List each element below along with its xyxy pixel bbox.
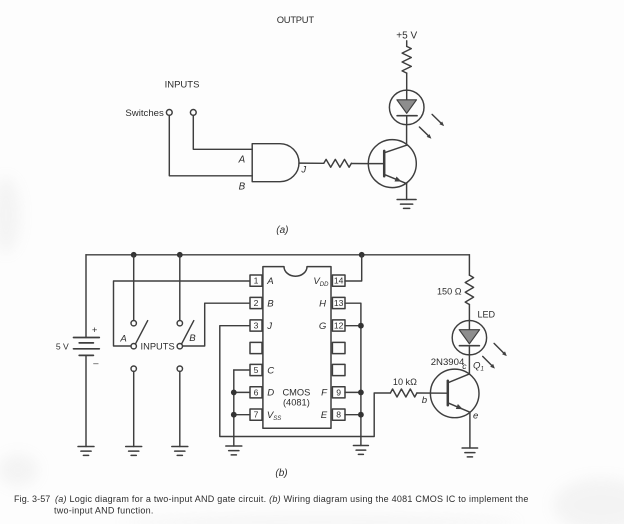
- wire pin 3 J to 10k resistor: [220, 326, 391, 437]
- svg-text:5: 5: [254, 365, 259, 375]
- ground switch B: [172, 447, 188, 456]
- junction dot rail-switch B: [177, 252, 183, 258]
- resistor 10 kOhm: [390, 389, 417, 397]
- wire pin 13 to unused-input ground bus: [345, 303, 361, 445]
- svg-text:14: 14: [334, 276, 344, 286]
- svg-text:2: 2: [254, 298, 259, 308]
- wire rail to 150 ohm resistor: [468, 255, 470, 275]
- ground battery: [78, 447, 94, 456]
- switch B: [177, 321, 194, 349]
- wire emitter to ground (a): [406, 184, 408, 200]
- svg-text:OUTPUT: OUTPUT: [277, 14, 315, 25]
- battery 5 V: [74, 338, 100, 356]
- junction dot pin 8: [358, 412, 364, 418]
- wire +5V stub (a): [406, 41, 408, 47]
- svg-text:LED: LED: [477, 310, 495, 320]
- junction dot rail-switch A: [131, 252, 137, 258]
- LED light arrows (b): [483, 343, 507, 368]
- svg-text:C: C: [267, 365, 274, 376]
- wire rail to switch B top: [179, 255, 181, 321]
- ground (a): [397, 200, 416, 209]
- svg-text:Fig. 3-57: Fig. 3-57: [14, 494, 50, 504]
- caption figure 3-57: [14, 494, 529, 516]
- junction dot pin 9: [358, 390, 364, 396]
- wire pin 9 stub: [345, 391, 361, 393]
- junction dot pin 7: [231, 412, 237, 418]
- pin 1 box left row 1: [250, 275, 262, 286]
- svg-text:A: A: [119, 334, 126, 345]
- svg-text:e: e: [473, 410, 478, 421]
- svg-text:INPUTS: INPUTS: [141, 341, 175, 351]
- svg-text:D: D: [267, 388, 274, 399]
- AND gate U1: [252, 144, 299, 182]
- svg-text:B: B: [239, 182, 246, 193]
- wire +5V rail (b): [86, 254, 469, 256]
- wire pin 1 to switch A pole: [114, 281, 250, 346]
- ground Vss bus: [226, 446, 242, 455]
- resistor base (a): [324, 159, 352, 167]
- wire Vss bus to ground: [233, 370, 235, 446]
- wire resistor to base (a): [351, 163, 368, 165]
- svg-text:A: A: [238, 155, 246, 166]
- junction dot rail-pin14: [359, 252, 365, 258]
- svg-text:–: –: [93, 357, 99, 368]
- ground switch A: [126, 447, 142, 456]
- pin 14 box right row 1: [332, 275, 345, 286]
- switch A: [131, 321, 148, 349]
- wire pin 14 to rail: [345, 255, 362, 281]
- svg-text:1: 1: [254, 276, 259, 286]
- svg-text:two-input AND function.: two-input AND function.: [54, 506, 154, 516]
- svg-text:CMOS: CMOS: [282, 388, 310, 398]
- pin blank box right row 5: [332, 364, 345, 375]
- wire pin 12 stub: [345, 325, 361, 327]
- wire battery - to ground: [85, 355, 87, 446]
- wire LED to collector (b): [468, 355, 470, 374]
- svg-text:9: 9: [336, 387, 341, 397]
- ground unused inputs bus: [353, 446, 368, 455]
- wire pin 7 stub: [234, 414, 250, 416]
- svg-text:B: B: [189, 333, 196, 344]
- pin 13 box right row 2: [332, 297, 345, 308]
- wire resistor to base (b): [417, 392, 448, 394]
- wire LED to collector (a): [406, 125, 408, 146]
- LED (b): [452, 321, 486, 355]
- svg-text:(a) Logic diagram for a two-in: (a) Logic diagram for a two-input AND ga…: [55, 494, 529, 504]
- junction dot pin 6: [231, 390, 237, 396]
- wire left switch to AND input B: [169, 115, 252, 176]
- pin blank box right row 4: [332, 342, 345, 353]
- resistor pull-up (a): [402, 46, 411, 73]
- pin 12 box right row 3: [332, 320, 345, 331]
- svg-text:2N3904: 2N3904: [431, 357, 465, 368]
- IC 4081 body: [263, 267, 331, 429]
- switch B lower terminal: [177, 366, 182, 371]
- resistor 150 Ohm: [465, 275, 473, 304]
- svg-text:10 kΩ: 10 kΩ: [393, 377, 417, 387]
- wire AND output to resistor: [299, 162, 324, 164]
- pin 5 box left row 5: [250, 364, 262, 375]
- wire pin 5 to Vss bus: [234, 369, 250, 371]
- pin 9 box right row 6: [332, 387, 345, 398]
- pin 8 box right row 7: [332, 409, 345, 420]
- svg-text:b: b: [422, 395, 428, 406]
- svg-text:B: B: [267, 298, 274, 309]
- wire resistor to LED (b): [468, 305, 470, 321]
- pin 7 box left row 7: [250, 409, 262, 420]
- transistor Q1 (b): [430, 369, 479, 418]
- svg-text:J: J: [266, 321, 272, 332]
- transistor Q (a): [368, 140, 416, 188]
- wire right switch to AND input A: [193, 115, 252, 149]
- svg-text:13: 13: [334, 298, 344, 308]
- svg-text:(b): (b): [275, 468, 287, 479]
- svg-text:+5 V: +5 V: [396, 31, 417, 42]
- pin 2 box left row 2: [250, 297, 262, 308]
- junction dot pin 12: [358, 323, 364, 329]
- svg-text:E: E: [321, 410, 328, 421]
- svg-text:7: 7: [254, 410, 259, 420]
- wire pin 2 to switch B pole: [183, 303, 250, 346]
- svg-text:Switches: Switches: [125, 108, 164, 119]
- ground emitter: [462, 448, 478, 457]
- svg-text:(a): (a): [276, 225, 288, 236]
- wire resistor to LED (a): [406, 73, 408, 90]
- wire rail to switch A top: [133, 255, 135, 321]
- wire rail to battery +: [85, 255, 87, 338]
- wire emitter to ground (b): [469, 412, 471, 448]
- svg-text:H: H: [319, 298, 326, 309]
- svg-text:5 V: 5 V: [56, 341, 69, 351]
- LED (a): [389, 90, 424, 125]
- svg-text:150 Ω: 150 Ω: [437, 286, 462, 296]
- svg-text:12: 12: [334, 321, 344, 331]
- svg-text:8: 8: [336, 410, 341, 420]
- svg-text:INPUTS: INPUTS: [165, 80, 200, 91]
- svg-text:G: G: [319, 321, 327, 332]
- pin 3 box left row 3: [250, 320, 262, 331]
- switch terminal right (a): [190, 110, 196, 116]
- pin 6 box left row 6: [250, 387, 262, 398]
- LED light arrows (a): [419, 114, 444, 138]
- wire pin 6 stub: [234, 391, 250, 393]
- svg-text:3: 3: [254, 321, 259, 331]
- svg-text:6: 6: [254, 387, 259, 397]
- svg-text:c: c: [462, 361, 467, 371]
- wire pin 8 stub: [345, 414, 361, 416]
- switch terminal left (a): [166, 110, 172, 116]
- switch A lower terminal: [131, 366, 136, 371]
- svg-text:A: A: [266, 276, 273, 287]
- svg-text:(4081): (4081): [283, 398, 310, 408]
- wire switch B terminal to ground: [179, 371, 181, 446]
- wire switch A terminal to ground: [133, 371, 135, 446]
- svg-text:+: +: [92, 324, 98, 335]
- pin blank box left row 4: [250, 342, 262, 353]
- svg-text:J: J: [300, 165, 306, 176]
